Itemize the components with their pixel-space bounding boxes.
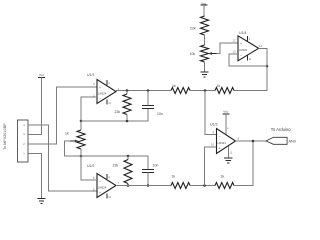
- svg-text:−: −: [219, 135, 221, 139]
- wire bottom path middle: [190, 185, 215, 187]
- wire top path middle: [190, 90, 215, 92]
- svg-text:U1/1: U1/1: [87, 73, 94, 77]
- Vcc symbol above U1/3: [222, 109, 229, 114]
- svg-text:LM324: LM324: [98, 91, 107, 95]
- op-amp U1/1: [87, 73, 120, 105]
- node E dot: [203, 184, 206, 187]
- wire pot bottom to ground: [204, 62, 206, 72]
- wire Vcc to U1/3 V+ pin 4: [225, 114, 227, 135]
- wire U1/1 output: [116, 90, 171, 92]
- ground GND2: [200, 72, 208, 77]
- wire node A to 22k and cap (feedback line top): [81, 109, 148, 122]
- wire pot wiper to bottom rail: [65, 141, 82, 156]
- wire node C to U1/3 - input: [205, 91, 217, 135]
- svg-text:+: +: [99, 191, 101, 195]
- op-amp U1/3: [210, 123, 240, 154]
- node C dot: [204, 89, 207, 92]
- node B dot (pot bottom): [80, 155, 83, 158]
- svg-text:U1/3: U1/3: [210, 123, 217, 127]
- capacitor C2 10n: [142, 163, 158, 185]
- resistor R7 1k (top path left): [171, 84, 190, 94]
- resistor R6 22k (bottom feedback): [113, 156, 133, 186]
- wire node B to bottom cap corner: [81, 156, 148, 170]
- wire pin 4 to U1/2 + input: [28, 125, 97, 191]
- svg-text:+: +: [219, 147, 221, 151]
- svg-text:To Arduino: To Arduino: [271, 127, 291, 132]
- svg-text:10k: 10k: [190, 52, 196, 56]
- junction dot 22k bottom: [126, 120, 129, 123]
- svg-text:+: +: [99, 86, 101, 90]
- svg-text:LM324: LM324: [98, 185, 107, 189]
- Vcc symbol left: [38, 73, 45, 78]
- wire bottom path right up to output: [234, 141, 253, 186]
- wire node A down to pot top: [80, 121, 82, 130]
- wire node B down to U1/2 - input: [81, 156, 97, 180]
- wire U1/4 feedback: [229, 54, 267, 66]
- wire pin 2 to U1/1 + input: [28, 87, 97, 144]
- svg-text:U1/4: U1/4: [239, 31, 246, 35]
- wire Vcc to pin 3: [28, 78, 42, 135]
- tag AN0: [266, 137, 296, 144]
- wire U1/3 output: [236, 140, 267, 142]
- junction dot cap top: [147, 89, 150, 92]
- op-amp U1/4: [233, 31, 263, 61]
- resistor R5 22k (offset divider): [190, 16, 209, 35]
- ground GND1: [37, 199, 45, 204]
- svg-text:Vcc: Vcc: [39, 73, 45, 77]
- wire U1/1 - input to node: [81, 97, 97, 121]
- svg-text:Vcc: Vcc: [223, 109, 229, 113]
- svg-text:To MPX2010DP: To MPX2010DP: [3, 123, 7, 150]
- junction dot cap2 bottom: [147, 184, 150, 187]
- resistor R10 1k (bottom path right / feedback): [215, 174, 234, 188]
- op-amp U1/2: [87, 164, 120, 199]
- resistor R8 1k (top path right): [215, 84, 234, 94]
- svg-text:−: −: [240, 54, 242, 58]
- potentiometer R11 10k: [190, 45, 217, 62]
- junction dot 22k2 bottom: [127, 184, 130, 187]
- svg-text:22k: 22k: [190, 27, 196, 31]
- svg-text:−: −: [99, 97, 101, 101]
- ground GND3: [224, 158, 232, 163]
- resistor R4 22k (top feedback): [115, 91, 132, 122]
- svg-text:AN0: AN0: [289, 139, 296, 143]
- svg-text:14: 14: [259, 44, 262, 48]
- wire U1/4 output down: [259, 48, 267, 66]
- svg-text:10n: 10n: [153, 163, 159, 167]
- wire U1/2 output: [116, 185, 171, 187]
- node A dot: [80, 120, 83, 123]
- svg-text:12: 12: [233, 39, 236, 43]
- wire node E to U1/3 + input: [205, 147, 217, 186]
- capacitor C1 10n: [142, 91, 163, 117]
- wire pot bottom to node B: [80, 149, 82, 156]
- wire Vcc to 22k: [203, 5, 205, 16]
- svg-text:1k: 1k: [172, 84, 176, 88]
- junction dot 22k top: [126, 89, 129, 92]
- svg-text:LM324: LM324: [239, 48, 248, 52]
- svg-text:1k: 1k: [217, 84, 221, 88]
- resistor R9 1k (bottom path left): [171, 175, 190, 189]
- svg-text:1k: 1k: [65, 132, 69, 136]
- svg-text:U1/2: U1/2: [87, 164, 94, 168]
- svg-text:22k: 22k: [113, 164, 119, 168]
- svg-text:22k: 22k: [115, 110, 121, 114]
- svg-text:1k: 1k: [221, 174, 225, 178]
- wire pot wiper to U1/4 + input: [217, 43, 239, 54]
- node D dot (offset feedback junction): [266, 65, 269, 68]
- junction dot output: [252, 140, 255, 143]
- junction dot 22k2 top: [127, 155, 130, 158]
- svg-text:−: −: [99, 180, 101, 184]
- svg-text:10n: 10n: [157, 112, 163, 116]
- wire 22k to pot: [204, 35, 206, 45]
- svg-text:13: 13: [233, 50, 236, 54]
- connector J1 To MPX2010DP: [18, 120, 29, 162]
- svg-text:+: +: [240, 42, 242, 46]
- svg-text:10: 10: [211, 143, 214, 147]
- wire top path right to offset buffer: [234, 66, 267, 91]
- svg-text:1k: 1k: [172, 175, 176, 179]
- wire U1/3 V- pin 11 to ground: [227, 146, 229, 158]
- potentiometer R3 1k: [65, 130, 85, 149]
- svg-text:LM324: LM324: [218, 141, 227, 145]
- wire pin 1 to ground: [28, 154, 42, 199]
- Vcc symbol top right: [200, 1, 207, 5]
